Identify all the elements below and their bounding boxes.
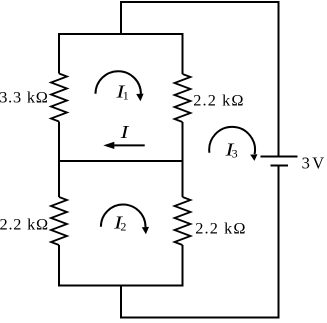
mesh current arrow I1 (clockwise arc, upper mesh) — [96, 71, 144, 101]
wire: inner bottom (bottom of lower mesh) — [59, 285, 183, 287]
svg-text:3: 3 — [302, 153, 310, 172]
mesh current arrow I2 (clockwise arc, lower mesh) — [101, 205, 149, 235]
wire: left branch top lead (to R1) — [58, 34, 60, 74]
resistor R2 (2.2 kOhm, upper right) — [175, 74, 191, 122]
svg-text:I: I — [119, 122, 129, 142]
wire: top stub from outer top wire down to inner top wire — [120, 2, 122, 34]
battery B1 long plate (+) — [261, 156, 298, 158]
svg-text:2.2 kΩ: 2.2 kΩ — [0, 214, 49, 233]
svg-text:2.2 kΩ: 2.2 kΩ — [195, 219, 246, 238]
wire: outer right lower (battery bottom lead) — [278, 166, 280, 318]
mesh current arrow I3 (clockwise arc, right/outer mesh) — [209, 127, 257, 161]
label I1 — [115, 81, 129, 102]
resistor R4 (2.2 kOhm, lower right) — [175, 197, 191, 245]
svg-text:3.3 kΩ: 3.3 kΩ — [0, 87, 49, 106]
svg-text:2.2 kΩ: 2.2 kΩ — [193, 90, 244, 109]
battery B1 short plate (-) — [271, 165, 289, 167]
wire: outer right upper (battery top lead) — [278, 1, 280, 157]
wire: left branch bottom lead (from R3) — [58, 245, 60, 286]
branch current arrow I (pointing left, above middle wire) — [103, 142, 144, 149]
wire: right branch bottom lead (from R4) — [182, 245, 184, 286]
resistor R3 (2.2 kOhm, lower left) — [51, 197, 67, 245]
svg-text:V: V — [312, 153, 324, 172]
label I2 — [113, 212, 127, 233]
svg-text:2: 2 — [120, 220, 126, 234]
svg-text:3: 3 — [232, 146, 238, 160]
wire: middle horizontal (shared branch, node between meshes) — [59, 160, 183, 162]
wire: right branch top lead (to R2) — [182, 34, 184, 74]
svg-text:1: 1 — [123, 89, 129, 103]
wire: outer bottom — [121, 317, 279, 319]
resistor R1 (3.3 kOhm, upper left) — [51, 74, 67, 122]
wire: left branch middle lead (R1 to R3, through middle node) — [58, 122, 60, 198]
wire: bottom stub from inner bottom wire down to outer bottom wire — [120, 286, 122, 318]
wire: outer top — [121, 1, 279, 3]
wire: right branch middle lead (R2 to R4, through middle node) — [182, 122, 184, 197]
value label 3 V (battery) — [302, 153, 325, 172]
wire: inner top (top of upper mesh) — [59, 33, 183, 35]
label I3 — [224, 140, 237, 161]
